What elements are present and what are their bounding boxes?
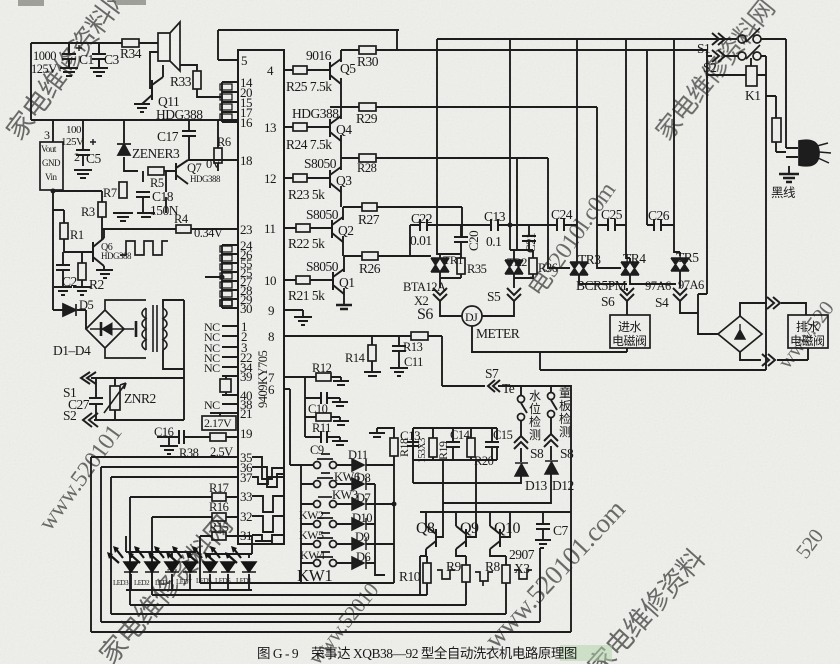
wire motor to drain top: [740, 303, 806, 316]
wire S2 left vertical to motor: [698, 50, 718, 334]
wire box right down: [570, 512, 572, 632]
wire staircase pin35: [252, 457, 284, 479]
waveform R10: [437, 570, 455, 579]
wire top-left supply rail: [31, 43, 158, 120]
wire RC cluster rails: [413, 428, 497, 512]
resistor R22: [296, 224, 310, 232]
diode D6: [352, 557, 366, 569]
wire R3 R1 branch: [64, 191, 102, 252]
transistor Q4: [330, 116, 341, 141]
pin ladder boxes 24-30: [220, 246, 232, 252]
LED labels: [113, 577, 252, 587]
button KW4: [314, 560, 321, 567]
resistor R3: [98, 202, 106, 217]
wire pin7 row R12: [284, 377, 341, 381]
resistor R23: [293, 174, 307, 182]
ground C16: [160, 446, 178, 454]
wire transformer secondary to S1: [163, 300, 184, 420]
ground black-wire: [779, 174, 799, 182]
regulator U2 box: [40, 142, 63, 190]
node C13-TR2: [508, 223, 513, 228]
resistor R15: [212, 532, 226, 540]
resistor R16: [212, 513, 226, 521]
arrow S5: [507, 288, 521, 301]
wire R26 to TR1 gate: [378, 255, 431, 257]
resistor R27: [362, 203, 377, 211]
diode D9: [352, 538, 366, 550]
wire Q8 Q9 Q10 feeds: [426, 512, 510, 537]
wire R14 stems: [371, 336, 373, 372]
wire DJ meter links: [440, 312, 514, 352]
wire IC left ladder pins24-30: [205, 245, 238, 308]
loop R15 pin31: [200, 536, 394, 583]
wire staircase pin32: [252, 516, 284, 532]
wire IC left ladder pins14-16: [222, 82, 238, 122]
diode D11: [352, 459, 366, 471]
capacitor C13b: [407, 428, 419, 460]
capacitor C21: [522, 236, 536, 241]
ground C2: [54, 287, 72, 295]
transistor Q11: [142, 77, 163, 104]
IC top bus: [218, 30, 399, 60]
wire R4 to pin23: [102, 228, 238, 230]
resistor R14: [368, 345, 376, 361]
resistor R34: [122, 39, 139, 47]
resistor R33: [193, 71, 201, 89]
waveform R8: [514, 570, 532, 579]
arrow drain bottom: [762, 354, 775, 366]
wire TR4 column: [626, 39, 676, 284]
diode D12: [545, 461, 558, 474]
arrow S1: [712, 33, 725, 45]
diode D7: [352, 498, 366, 510]
wire D5 branch: [53, 310, 86, 329]
LED7: [183, 562, 197, 572]
wire LED cathode rails: [126, 574, 252, 590]
resistor R2: [78, 263, 86, 280]
switch water-level: [518, 396, 525, 403]
resistor R5: [148, 167, 164, 175]
LED1: [242, 562, 256, 572]
pin12 wire: [284, 177, 330, 179]
wire R9 stems: [456, 549, 466, 605]
wire R36 branch: [514, 250, 533, 278]
LED4: [165, 562, 179, 572]
wire pin8 row: [284, 335, 442, 337]
diode D13: [515, 463, 528, 476]
wire K1 connections: [707, 58, 766, 75]
wire staircase pin31: [252, 535, 284, 544]
wire Q4 R29: [341, 107, 621, 268]
wire ZNR2 stems: [114, 378, 116, 420]
arrow S6 TR1: [433, 288, 447, 301]
wire Q2 R27: [343, 207, 462, 237]
wire keypad right to diodes: [337, 465, 352, 563]
capacitor C5: [74, 150, 92, 178]
arrow S6 TR3: [620, 288, 634, 301]
transistor Q9: [456, 526, 466, 549]
loop pin36: [101, 467, 540, 622]
wire staircase pin37: [252, 477, 284, 484]
capacitor C11: [392, 346, 406, 351]
wire Q2 emitter: [342, 236, 344, 256]
wire Q8 down: [420, 549, 427, 595]
resistor R19 rotated: [429, 438, 437, 457]
wire S2 row: [94, 419, 184, 421]
resistor R38: [210, 433, 226, 441]
fuse resistor: [772, 118, 781, 142]
diode D8: [352, 478, 366, 490]
ground Q6: [96, 270, 113, 278]
switch arrow S1: [81, 372, 96, 384]
wire S2 rail: [707, 55, 766, 57]
wire TR2 column: [482, 39, 514, 316]
meter DJ: [462, 306, 482, 326]
valve box inlet: [610, 315, 650, 348]
wire C21 branch: [514, 225, 529, 250]
triac TR2: [505, 260, 523, 274]
pin numbers left: [240, 53, 253, 543]
caption highlight: [560, 645, 612, 661]
testpoint box 2.17V: [202, 416, 236, 430]
triac TR1: [431, 258, 449, 272]
zener diode ZENER3: [117, 144, 131, 155]
triac TR4: [621, 262, 639, 275]
wire supply bus x399: [396, 30, 398, 50]
capacitor C2: [56, 265, 70, 270]
transistor Q8: [426, 526, 436, 549]
bridge rectifier D1-D4: [86, 300, 146, 358]
ground C9: [332, 441, 348, 445]
wire Q6 emitter C2 R2: [63, 229, 104, 287]
wire C24 drop to TR3 gate: [548, 158, 570, 268]
ground Q11: [134, 104, 150, 112]
wire fuse stems: [766, 96, 786, 152]
loop R16 pin32: [152, 517, 427, 595]
arrow S2: [712, 50, 725, 62]
ground C7: [535, 540, 551, 548]
triac TR3: [570, 262, 588, 275]
wire water-level switch column: [413, 386, 527, 483]
resistor R10: [423, 563, 431, 583]
transistor Q6: [93, 238, 104, 266]
loop pin37: [111, 477, 506, 614]
transformer T1: [142, 305, 167, 352]
wire C7 stem: [542, 512, 544, 540]
wire Q7 base/collector: [143, 160, 238, 213]
resistor R4: [176, 225, 191, 233]
transistor Q2: [332, 217, 343, 242]
LED5: [203, 562, 217, 572]
resistor R26: [362, 252, 378, 260]
wire lid switch column: [443, 386, 557, 503]
transistor Q10: [490, 526, 500, 549]
wire Q5 collector R30: [341, 50, 707, 62]
wire regulator rail: [31, 120, 238, 310]
wire C27 stems: [95, 378, 97, 420]
ground R14: [364, 372, 381, 376]
resistor R7: [119, 182, 127, 198]
wire R8 stems: [490, 549, 506, 614]
wire S1 feed rail y39: [437, 38, 786, 40]
LED2: [145, 562, 159, 572]
resistor R6: [214, 148, 222, 163]
button KW3: [314, 481, 321, 488]
capacitor C18: [136, 192, 150, 197]
capacitor C22: [420, 219, 427, 231]
wire Q3 R28: [341, 158, 548, 250]
resistor R12: [316, 373, 331, 381]
capacitor C16: [179, 430, 184, 444]
switch S2 contacts: [738, 52, 746, 60]
resistor R20: [467, 438, 475, 457]
wire C5 stem: [82, 120, 84, 166]
pin11 wire: [284, 227, 332, 229]
wire C11 stems: [398, 336, 400, 368]
resistor R29: [359, 103, 376, 111]
plus sign C1: [76, 45, 82, 51]
wire pin9 ground jog: [284, 310, 303, 317]
arrow drain top: [767, 297, 780, 309]
resistor R28: [359, 154, 376, 162]
wire detect box edges: [413, 386, 571, 512]
wire plug feed: [786, 39, 798, 174]
resistor R17: [212, 493, 226, 501]
capacitor C25: [608, 219, 615, 231]
transistor Q1: [333, 269, 344, 294]
wire Q5 emitter chain: [330, 78, 341, 107]
diode D10: [352, 518, 366, 530]
IC U1 9409KY705: [238, 50, 284, 544]
wire motor bottom to drain: [740, 348, 808, 360]
switch S1 contacts: [738, 35, 746, 43]
button KW2: [314, 521, 321, 528]
transistor Q3: [330, 167, 341, 192]
arrow S4: [673, 288, 687, 301]
wire diode bus x394: [366, 456, 394, 583]
triac TR5: [671, 258, 689, 271]
wire R18 stem: [369, 428, 394, 438]
wire TR5 column: [674, 39, 698, 313]
arrow S8 water: [514, 436, 528, 449]
plus sign C5: [90, 139, 96, 145]
capacitor C24: [557, 219, 564, 231]
wire cap row y225: [410, 224, 674, 226]
capacitor C3: [90, 43, 108, 76]
waveform sync pulse: [120, 241, 168, 255]
button KW5: [314, 541, 321, 548]
wire C7 column down: [540, 548, 543, 622]
loop R17 pin33: [130, 497, 466, 605]
transistor Q5: [330, 59, 341, 84]
wire Q3 emitter: [340, 186, 342, 207]
capacitor C27: [89, 398, 103, 404]
wire LED anode rails: [126, 536, 252, 558]
resistor R35: [457, 258, 465, 274]
pin10 wire: [284, 279, 333, 281]
power plug: [799, 140, 819, 166]
pin13 wire: [284, 126, 330, 128]
wire Q4 emitter: [340, 135, 342, 158]
wire pin6 drop: [284, 389, 301, 583]
resistor R18: [390, 438, 398, 456]
resistor R9: [462, 565, 470, 582]
valve box drain: [788, 315, 828, 348]
capacitor C9: [321, 431, 327, 443]
wire NC stubs: [222, 326, 238, 404]
arrow S7: [488, 380, 500, 392]
wire pin19 C16 R38: [157, 437, 238, 446]
wire power return x766: [540, 56, 766, 370]
node ladder: [220, 275, 225, 280]
resistor pin39-40: [220, 379, 231, 392]
ground R12: [333, 381, 349, 385]
ground pin9: [294, 317, 312, 325]
wire x305 column: [305, 377, 340, 441]
loop pin35: [91, 457, 571, 632]
ground C18-R7: [113, 213, 155, 221]
wire pin39-40 resistor: [222, 376, 238, 395]
transistor Q7: [176, 160, 188, 184]
node junction reg: [51, 189, 56, 194]
capacitor C17: [182, 131, 196, 136]
diode D5: [63, 304, 76, 316]
NC labels: [204, 320, 220, 412]
capacitor C7: [536, 524, 550, 529]
wire C22 left drop: [409, 225, 411, 256]
resistor R24: [293, 123, 307, 131]
pin numbers right: [264, 63, 276, 397]
wire C17 stem: [188, 120, 190, 160]
motor M bridge: [718, 316, 762, 352]
wire pin21 testpoint: [210, 413, 238, 416]
ground C11: [390, 368, 408, 376]
wire Q1 R26: [344, 256, 362, 272]
wire R10 stems: [426, 551, 427, 563]
wire TR1 column: [437, 39, 462, 316]
resistor R21: [296, 276, 310, 284]
wire S1 row: [91, 377, 184, 379]
ground R11: [333, 421, 349, 425]
ground C10: [332, 402, 348, 406]
speaker SP: [158, 22, 180, 71]
wire staircase pin33: [252, 496, 284, 512]
LED3: [124, 562, 138, 572]
wire R13 to S7: [442, 336, 551, 386]
pin4 wire: [284, 69, 330, 71]
capacitor C1: [60, 43, 78, 76]
button row3: [314, 501, 321, 508]
wire zener stem: [124, 120, 138, 171]
capacitor C20: [454, 237, 468, 242]
capacitor C15: [485, 442, 499, 447]
switch arrow S2: [83, 413, 98, 427]
resistor R30: [359, 46, 376, 54]
wire R35 C20 branch: [440, 225, 461, 278]
ground Q1: [336, 305, 352, 309]
capacitor C14: [446, 442, 460, 447]
arrow S8 lid: [544, 434, 558, 447]
pin ladder boxes 14-16: [220, 84, 232, 90]
varistor ZNR2: [110, 386, 120, 410]
wire inlet valve bottom: [471, 348, 627, 352]
wire cluster stems: [433, 428, 492, 460]
wire TR3 column: [577, 39, 627, 315]
wire Q1 emitter ground: [343, 288, 345, 305]
resistor R1: [60, 223, 68, 239]
ground R2: [73, 287, 91, 295]
resistor R25: [293, 66, 307, 74]
switch lid: [548, 393, 555, 400]
wire R6 stem: [217, 120, 219, 171]
capacitor C13: [491, 219, 498, 231]
wire R33 Q11 node: [150, 52, 222, 97]
wire keypad left column: [301, 465, 313, 563]
resistor R13: [411, 332, 428, 340]
LED6: [221, 562, 235, 572]
capacitor C26: [654, 219, 661, 231]
relay K1: [746, 66, 757, 86]
resistor R11: [316, 413, 331, 421]
waveform R9: [475, 572, 493, 586]
capacitor C10: [321, 392, 327, 404]
wire staircase pin36: [252, 467, 284, 487]
button KW6: [314, 462, 321, 469]
node diode bus: [392, 502, 397, 507]
wire diode bus x375: [366, 484, 385, 575]
resistor R36: [529, 258, 537, 274]
resistor R8: [502, 565, 510, 583]
